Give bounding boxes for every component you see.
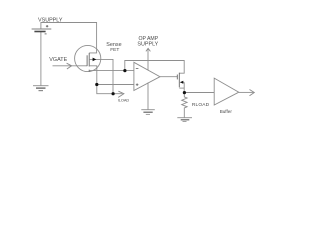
svg-text:VSUPPLY: VSUPPLY	[38, 18, 63, 24]
svg-text:RLOAD: RLOAD	[192, 102, 210, 108]
svg-text:FET: FET	[110, 47, 119, 53]
svg-text:Buffer: Buffer	[220, 109, 233, 114]
svg-text:VGATE: VGATE	[49, 57, 67, 63]
svg-text:ILOAD: ILOAD	[118, 98, 130, 103]
svg-text:SUPPLY: SUPPLY	[137, 42, 158, 48]
